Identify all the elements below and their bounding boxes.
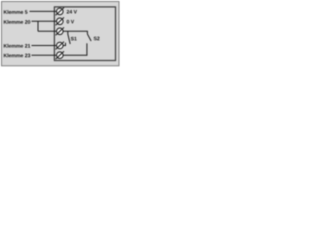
wire X4 to S1 contact bbox=[63, 45, 66, 47]
terminal X2 bbox=[56, 17, 64, 25]
wire Klemme 5 to terminal bbox=[30, 10, 57, 12]
switch S2 blade bbox=[87, 34, 91, 41]
switch S1 stub bbox=[67, 31, 69, 34]
label Klemme 21 bbox=[4, 44, 30, 48]
switch S1 blade bbox=[68, 34, 70, 44]
device box U1 bbox=[54, 7, 115, 61]
switch S2 contact bbox=[86, 43, 88, 55]
switch S1 contact bbox=[65, 43, 67, 46]
label 0 V bbox=[67, 20, 74, 24]
terminal X1 bbox=[56, 8, 64, 16]
wire branch 0V down bbox=[37, 21, 39, 31]
label S2 bbox=[94, 37, 100, 41]
border frame bbox=[2, 2, 120, 66]
terminal X4 bbox=[56, 42, 64, 50]
background panel bbox=[2, 2, 119, 66]
label Klemme 5 bbox=[4, 10, 28, 14]
terminal X3 bbox=[56, 27, 64, 35]
label Klemme 20 bbox=[4, 20, 30, 24]
wire X5 to S2 contact bbox=[63, 54, 87, 56]
wire rail from X3 to S2 bbox=[63, 31, 87, 34]
label 24 V bbox=[67, 10, 77, 14]
label Klemme 23 bbox=[4, 54, 30, 58]
wire branch to X3 bbox=[38, 30, 57, 32]
wire Klemme 21 to terminal bbox=[32, 45, 57, 47]
terminal X5 bbox=[56, 51, 64, 59]
label S1 bbox=[71, 37, 77, 41]
wire Klemme 20 to terminal bbox=[32, 20, 57, 22]
wire Klemme 23 to terminal bbox=[32, 54, 57, 56]
